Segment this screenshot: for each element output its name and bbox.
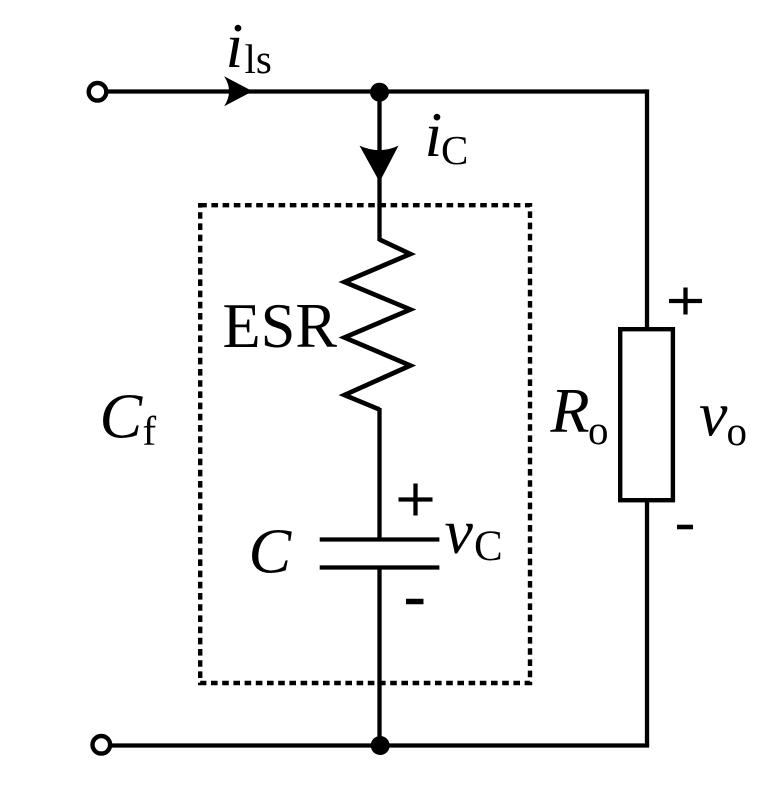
capacitor C bottom plate — [320, 565, 440, 569]
plus sign vC — [399, 484, 433, 516]
svg-text:o: o — [727, 408, 748, 454]
svg-text:f: f — [143, 408, 157, 454]
capacitor C top plate — [320, 537, 440, 541]
plus sign vo — [669, 288, 702, 315]
resistor Ro box — [620, 329, 673, 500]
minus sign vC — [406, 599, 424, 605]
wire top rail — [100, 89, 647, 93]
svg-text:C: C — [100, 381, 144, 452]
svg-text:C: C — [441, 127, 468, 173]
svg-text:i: i — [425, 99, 443, 170]
wire center vertical top — [377, 92, 381, 242]
current arrow i_C — [360, 146, 399, 182]
minus sign vo — [677, 525, 693, 530]
svg-text:C: C — [249, 516, 293, 587]
wire resistor to capacitor — [377, 408, 381, 540]
wire right vertical lower — [645, 498, 649, 746]
svg-text:R: R — [550, 375, 590, 446]
node junction top — [370, 83, 389, 102]
svg-text:v: v — [699, 379, 728, 450]
terminal bottom-left — [93, 736, 111, 754]
svg-text:ls: ls — [245, 36, 272, 82]
svg-text:o: o — [588, 407, 609, 453]
node junction bottom — [371, 736, 390, 755]
svg-text:i: i — [226, 10, 244, 81]
svg-text:C: C — [474, 523, 503, 570]
wire right vertical upper — [645, 89, 649, 331]
wire bottom rail — [104, 743, 649, 747]
terminal top-left — [89, 83, 107, 101]
resistor ESR zigzag — [345, 240, 411, 410]
svg-text:v: v — [445, 496, 474, 567]
dashed box Cf outline — [200, 205, 530, 683]
svg-text:ESR: ESR — [223, 290, 338, 361]
wire capacitor to bottom rail — [377, 568, 381, 746]
current arrow i_ls — [224, 76, 253, 106]
